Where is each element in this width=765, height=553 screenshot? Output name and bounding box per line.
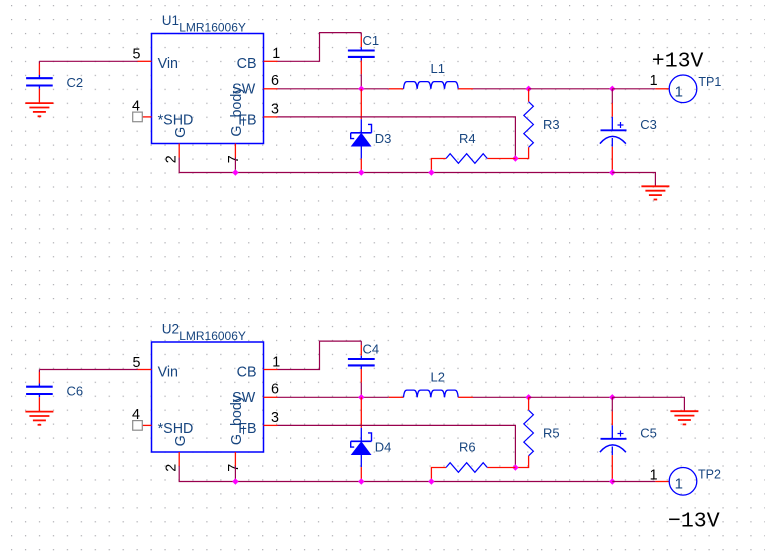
svg-text:Vin: Vin [158,365,178,381]
wire [529,88,613,90]
svg-text:1: 1 [650,73,658,89]
junction [609,478,615,484]
capacitor C6 [26,370,83,412]
svg-text:CB: CB [237,365,257,381]
svg-text:U1: U1 [162,13,179,28]
pin 7 G_body stub [234,452,236,466]
svg-text:1: 1 [650,468,658,484]
ground [641,186,669,199]
svg-text:4: 4 [132,99,140,115]
svg-text:5: 5 [133,355,141,371]
svg-text:C5: C5 [640,426,657,441]
svg-text:C1: C1 [363,33,380,48]
IC U1 LMR16006Y [132,13,280,163]
svg-text:CB: CB [237,56,257,72]
pin 4 no-connect square [133,421,143,431]
junction [358,394,364,400]
pin 5 Vin stub [138,369,152,371]
svg-text:2: 2 [164,155,180,163]
pin 5 Vin stub [138,60,152,62]
svg-text:G: G [173,435,189,446]
pin 4 *SHD stub [142,424,151,426]
wire Vin net [39,60,137,62]
wire rail to TP2 [612,481,655,483]
wire FB net [278,425,516,467]
ground [25,103,53,116]
pin 6 SW stub [264,396,278,398]
pin 2 G stub [178,144,180,158]
test point TP1 [650,73,722,103]
svg-text:7: 7 [226,464,242,472]
svg-text:*SHD: *SHD [158,421,194,437]
resistor R4 [431,131,515,173]
junction [358,86,364,92]
pin 4 no-connect square [133,112,143,122]
svg-text:+13V: +13V [652,50,704,74]
test point TP2 [650,468,721,496]
svg-text:L1: L1 [431,61,445,76]
svg-text:TP1: TP1 [698,75,721,89]
svg-text:7: 7 [226,155,242,163]
diode D3 (Schottky) [351,89,392,173]
pin 3 FB stub [264,424,278,426]
wire [529,396,613,398]
svg-text:C3: C3 [640,117,657,132]
pin 7 G_body stub [234,144,236,158]
svg-text:G_body: G_body [229,394,245,445]
capacitor C4 [348,341,379,383]
svg-text:6: 6 [271,382,279,398]
wire pin7 [234,466,236,482]
svg-text:5: 5 [133,46,141,62]
svg-text:R6: R6 [459,439,476,454]
wire FB net [278,117,516,159]
wire rail to ground [612,173,655,187]
svg-text:1: 1 [675,476,683,493]
junction [428,478,434,484]
pin 6 SW stub [264,88,278,90]
svg-text:1: 1 [272,46,280,62]
svg-text:R5: R5 [543,425,560,440]
svg-text:C4: C4 [363,341,380,356]
svg-text:LMR16006Y: LMR16006Y [179,329,246,343]
svg-text:R3: R3 [543,117,560,132]
ground [25,412,53,425]
capacitor C2 [26,61,83,103]
svg-text:C6: C6 [67,383,84,398]
IC U2 LMR16006Y [132,322,280,472]
svg-text:−13V: −13V [668,510,720,534]
junction [512,464,518,470]
wire [473,396,529,398]
svg-text:6: 6 [271,73,279,89]
svg-text:LMR16006Y: LMR16006Y [179,20,246,34]
junction [358,478,364,484]
svg-text:U2: U2 [162,322,179,337]
junction [232,478,238,484]
resistor R3 [515,89,559,159]
junction [358,169,364,175]
wire CB net [278,33,362,62]
pin 1 CB stub [264,60,278,62]
pin 4 *SHD stub [142,116,151,118]
ground [670,411,698,424]
wire [360,74,362,89]
capacitor C5 (polarized) [600,397,657,481]
svg-text:3: 3 [271,101,279,117]
svg-text:*SHD: *SHD [158,113,194,129]
wire SW net [278,88,389,90]
capacitor C3 (polarized) [600,89,657,173]
svg-text:1: 1 [272,355,280,371]
svg-text:1: 1 [675,83,683,100]
junction [428,169,434,175]
diode D4 (Schottky) [351,397,392,481]
inductor L1 [389,61,473,89]
wire [360,383,362,398]
wire pin7 [234,158,236,173]
pin 1 CB stub [264,369,278,371]
junction [525,394,531,400]
wire ground rail [179,466,612,482]
wire output net [612,88,655,90]
wire ground rail [179,158,612,173]
junction [525,86,531,92]
svg-text:G: G [173,127,189,138]
junction [512,155,518,161]
junction [609,169,615,175]
capacitor C1 [348,33,379,75]
junction [609,86,615,92]
wire CB net [278,341,362,369]
svg-text:Vin: Vin [158,56,178,72]
svg-text:4: 4 [132,407,140,423]
svg-text:D3: D3 [375,131,392,146]
svg-text:C2: C2 [67,75,84,90]
svg-text:2: 2 [164,464,180,472]
svg-text:3: 3 [271,410,279,426]
resistor R5 [515,397,559,467]
svg-text:L2: L2 [431,369,445,384]
wire SW net [278,396,389,398]
pin 2 G stub [178,452,180,466]
wire Vin net [39,369,137,371]
junction [232,169,238,175]
svg-text:TP2: TP2 [698,468,721,482]
junction [609,394,615,400]
pin 3 FB stub [264,116,278,118]
resistor R6 [431,439,515,481]
svg-text:D4: D4 [375,440,392,455]
svg-text:G_body: G_body [229,86,245,137]
wire output net to ground [612,397,684,411]
wire [473,88,529,90]
inductor L2 [389,369,473,397]
svg-text:R4: R4 [459,131,476,146]
